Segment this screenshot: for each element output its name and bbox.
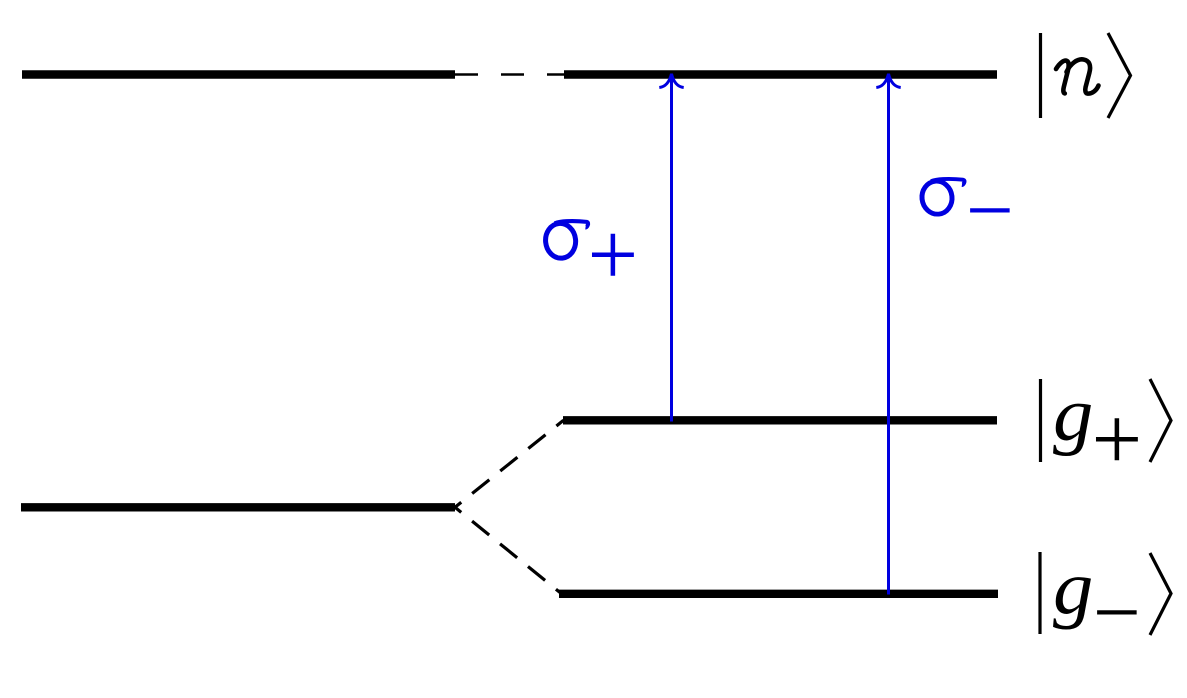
svg-text:g: g bbox=[1053, 372, 1093, 456]
svg-text:−: − bbox=[1093, 565, 1141, 659]
svg-text:−: − bbox=[966, 164, 1014, 258]
svg-text:+: + bbox=[1092, 390, 1143, 489]
svg-text:g: g bbox=[1053, 545, 1093, 629]
svg-text:+: + bbox=[588, 205, 639, 304]
